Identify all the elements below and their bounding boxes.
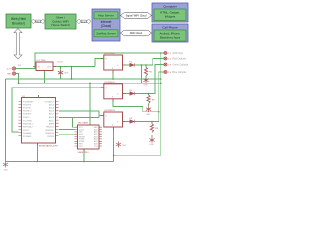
svg-text:Http Server: Http Server [98,14,114,18]
svg-text:PD7/AIN1: PD7/AIN1 [23,135,31,138]
svg-text:Widgets: Widgets [165,15,176,19]
svg-text:PD2/INT0: PD2/INT0 [23,111,31,113]
svg-text:ADC0: ADC0 [49,116,54,119]
svg-text:IC1 7805: IC1 7805 [37,60,47,62]
svg-text:PB2/SS: PB2/SS [47,136,54,138]
svg-text:GND: GND [146,114,151,116]
svg-text:GND Strip: GND Strip [173,52,184,55]
svg-text:ADC1: ADC1 [49,113,54,116]
svg-text:PD4/T0: PD4/T0 [23,117,29,119]
svg-text:WiFi Cloud: WiFi Cloud [130,32,143,35]
svg-text:PB4/MISO: PB4/MISO [45,130,54,132]
svg-text:GND: GND [144,84,149,86]
svg-text:PD3/INT1: PD3/INT1 [23,114,31,116]
svg-text:ADC4: ADC4 [49,103,54,106]
svg-text:PC5/ADC5: PC5/ADC5 [45,100,54,103]
svg-text:ADC2: ADC2 [49,110,54,113]
svg-text:(Cloud): (Cloud) [101,24,111,28]
svg-text:GND: GND [122,145,127,147]
svg-text:Blue Cathode: Blue Cathode [173,71,188,74]
svg-text:GND: GND [7,74,12,76]
svg-text:Computer: Computer [163,5,177,9]
svg-text:Web (Html: Web (Html [11,17,26,21]
svg-text:Home Switch: Home Switch [51,23,70,27]
svg-text:PB3/MOSI: PB3/MOSI [45,133,54,135]
svg-text:+12 V: +12 V [6,69,12,71]
svg-text:5.0 V: 5.0 V [58,62,64,64]
svg-text:Red Cathode: Red Cathode [173,57,187,60]
svg-text:PD1/TXD: PD1/TXD [23,108,32,110]
svg-text:Cell Phone: Cell Phone [162,26,177,30]
svg-text:GND: GND [4,170,9,172]
svg-text:GND: GND [150,144,155,146]
svg-text:ADC3: ADC3 [49,107,54,110]
svg-text:PB6/XTAL1: PB6/XTAL1 [23,123,33,126]
svg-text:PD0/RXD: PD0/RXD [23,104,32,106]
svg-text:Zip/Http Server: Zip/Http Server [96,32,115,36]
svg-text:GND: GND [64,73,69,75]
svg-text:PB5/SCK: PB5/SCK [46,127,55,129]
svg-text:Xport: Xport [81,20,87,23]
svg-text:Q3 IRF520: Q3 IRF520 [104,110,115,112]
svg-text:PD6/AIN0: PD6/AIN0 [23,132,31,135]
svg-text:Q1 IRF520: Q1 IRF520 [104,53,115,55]
svg-text:AREF: AREF [49,123,55,126]
svg-text:Green Cathode: Green Cathode [173,63,189,66]
svg-text:AVCC: AVCC [49,120,55,123]
svg-text:PD5/T1: PD5/T1 [23,130,29,132]
svg-text:VCC/GND: VCC/GND [23,121,32,123]
svg-text:Browser): Browser) [12,22,25,26]
svg-text:PC6/RESET: PC6/RESET [23,101,34,103]
svg-text:Blackberry Apps: Blackberry Apps [160,36,181,40]
svg-text:XB1 XBEE: XB1 XBEE [78,123,89,125]
svg-text:ATMEGA168-20PU: ATMEGA168-20PU [39,145,58,148]
svg-text:XBEE-PRO: XBEE-PRO [78,152,90,154]
svg-text:PB7/XTAL2: PB7/XTAL2 [23,126,33,129]
svg-text:Q2 IRF520: Q2 IRF520 [104,82,115,84]
svg-text:Signal 'WiFi' Cloud: Signal 'WiFi' Cloud [126,14,147,17]
svg-text:Html: Html [36,20,41,23]
